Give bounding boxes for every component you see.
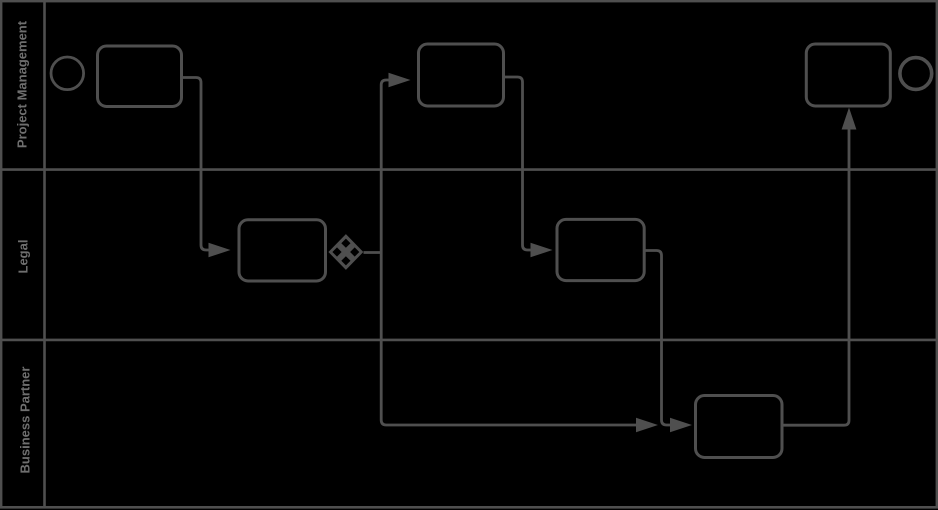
svg-text:Business Partner: Business Partner (18, 367, 33, 474)
svg-text:Project Management: Project Management (15, 20, 30, 148)
svg-text:Legal: Legal (16, 240, 31, 274)
